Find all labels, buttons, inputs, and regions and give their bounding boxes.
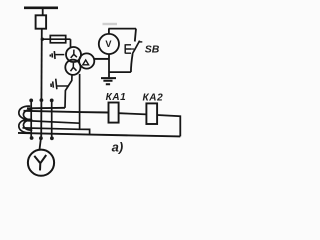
wire V top [108,29,136,42]
CT secondary winding inner [23,110,32,131]
wire V bottom stem [108,54,110,77]
wire KA2 to return (right side) [157,115,180,136]
VT winding 2 (star) [65,60,80,75]
wire busbar to breaker [42,8,44,16]
stray scan mark [103,23,118,25]
ground G2 stub [57,85,69,87]
wire generator stem [40,138,41,150]
wire SB bottom curve [131,54,133,72]
wire delta to voltmeter [94,58,109,60]
wire CT bottom [23,128,90,135]
svg-text:SB: SB [145,44,160,56]
node phase A top [29,99,33,103]
wire tap to fuse [42,38,70,40]
wire common return bottom [18,133,180,137]
wire CT middle [23,121,79,124]
svg-text:V: V [105,39,112,49]
node phase B bottom [39,136,43,140]
VT winding 3 (delta) [79,53,94,68]
wire VT neutral to phases [27,107,65,110]
pushbutton SB stem [131,48,134,50]
wire between relays [119,113,147,114]
node phase A bottom [30,136,34,140]
busbar [24,7,58,10]
node fuse tap [41,38,44,41]
ground G1 [50,51,55,59]
svg-text:КА1: КА1 [106,92,127,103]
ground G1 stub [55,54,64,56]
node phase C top [50,99,54,103]
phase C lead [51,100,53,138]
CT secondary winding outer [19,106,30,133]
wire breaker down / phase B lead [40,29,43,139]
svg-text:КА2: КА2 [143,92,164,103]
VT W2 star symbol [71,63,77,72]
voltmeter PV [99,34,119,54]
node phase B top [40,98,44,102]
pushbutton SB tick [138,41,142,43]
generator G [28,150,54,176]
wire CT to KA1 (feed) [24,111,109,113]
node phase C bottom [50,136,54,140]
relay KA2 [146,103,157,124]
ground G2 [50,79,56,90]
VT winding 1 (star) [66,47,81,62]
generator star symbol [34,155,46,170]
wire fuse to VT [70,39,72,47]
phase A lead [30,100,32,138]
VT W1 star symbol [71,50,77,58]
pushbutton SB actuator [125,44,131,53]
svg-text:а): а) [112,140,124,155]
wire jog vertical [79,74,81,129]
pushbutton SB contact [132,41,139,54]
VT neutral lead down [65,75,72,108]
fuse FU [50,36,65,43]
wire SB return [109,71,131,73]
VT W3 delta symbol [83,60,89,65]
relay KA1 [109,103,119,123]
ground under voltmeter [101,78,116,84]
breaker Q [36,15,47,28]
